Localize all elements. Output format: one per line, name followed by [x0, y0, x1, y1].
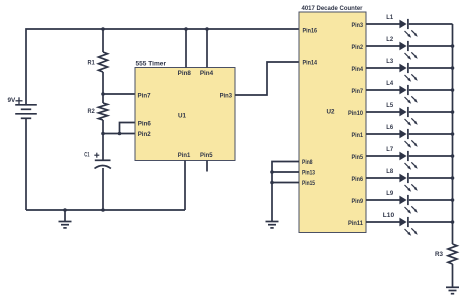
- resistor R3: [448, 244, 457, 264]
- LED L3: [366, 63, 453, 82]
- junction dot at (272,182.5): [270, 181, 274, 185]
- LED L6: [366, 129, 453, 148]
- svg-text:Pin4: Pin4: [352, 66, 364, 73]
- LED L1: [366, 19, 453, 38]
- svg-text:Pin6: Pin6: [138, 120, 152, 127]
- junction dot at (207,29): [205, 27, 209, 31]
- junction dot at (186,29): [184, 27, 188, 31]
- svg-text:9V: 9V: [8, 97, 16, 104]
- svg-text:Pin3: Pin3: [352, 22, 364, 29]
- IC U1 555 timer box: [135, 68, 235, 161]
- svg-text:Pin8: Pin8: [178, 70, 192, 77]
- svg-text:Pin2: Pin2: [138, 131, 151, 138]
- svg-text:L6: L6: [386, 124, 393, 131]
- svg-text:R3: R3: [435, 251, 443, 258]
- svg-text:Pin1: Pin1: [178, 152, 191, 159]
- wire: node to U1 Pin7: [103, 93, 135, 95]
- ground (bottom-right): [446, 287, 459, 293]
- svg-text:Pin9: Pin9: [352, 198, 364, 205]
- ground (under U2): [266, 222, 279, 228]
- svg-text:Pin7: Pin7: [138, 93, 151, 100]
- svg-text:L1: L1: [386, 14, 393, 21]
- wire: bottom ground rail: [26, 209, 185, 211]
- ground (bottom-left): [59, 222, 72, 228]
- LED L8: [366, 173, 453, 192]
- junction dot at (65,210): [63, 208, 67, 212]
- svg-text:L4: L4: [386, 80, 393, 87]
- svg-text:L9: L9: [386, 190, 393, 197]
- battery BT1 9V: [15, 105, 37, 119]
- wire: top power rail from battery to U2 Pin16: [26, 29, 299, 105]
- wire: LED cathode bus: [452, 24, 454, 287]
- svg-text:C1: C1: [84, 152, 89, 159]
- svg-text:Pin5: Pin5: [352, 154, 364, 161]
- wire: U1 Pin5 stub: [206, 161, 208, 172]
- svg-text:L8: L8: [386, 168, 393, 175]
- svg-text:Pin11: Pin11: [348, 220, 363, 227]
- svg-text:Pin7: Pin7: [352, 88, 364, 95]
- svg-text:4017 Decade Counter: 4017 Decade Counter: [302, 5, 363, 12]
- junction dots on bus: [451, 44, 455, 224]
- resistor R2: [99, 103, 108, 120]
- svg-text:L10: L10: [383, 212, 395, 219]
- LED L2: [366, 41, 453, 60]
- svg-text:Pin16: Pin16: [303, 28, 318, 35]
- svg-text:U2: U2: [327, 109, 335, 116]
- label 9V+: [8, 97, 23, 105]
- wire: R1/R2/C1 column: [102, 29, 104, 210]
- svg-text:Pin13: Pin13: [302, 170, 315, 177]
- svg-text:555 Timer: 555 Timer: [136, 61, 167, 68]
- junction dot at (272,172): [270, 170, 274, 174]
- plus sign for C1: [94, 153, 99, 158]
- junction dot at (103,29): [101, 27, 105, 31]
- LED L5: [366, 107, 453, 126]
- LED L9: [366, 195, 453, 214]
- LED L7: [366, 151, 453, 170]
- capacitor C1: [95, 160, 111, 168]
- wire: Pin6 stub: [120, 123, 136, 134]
- resistor R1: [99, 52, 108, 72]
- svg-text:Pin2: Pin2: [352, 44, 364, 51]
- svg-text:Pin4: Pin4: [200, 70, 214, 77]
- wire: node to U1 Pin2: [103, 133, 135, 135]
- svg-text:L2: L2: [386, 36, 393, 43]
- svg-text:Pin5: Pin5: [200, 152, 213, 159]
- wire: U1 Pin3 to U2 Pin14: [235, 62, 299, 95]
- LED L10: [366, 217, 453, 236]
- junction dot at (103,133.5): [101, 132, 105, 136]
- svg-text:Pin1: Pin1: [352, 132, 364, 139]
- svg-text:Pin15: Pin15: [302, 180, 315, 187]
- svg-text:Pin10: Pin10: [348, 110, 363, 117]
- junction dot node R1/R2/Pin7: [101, 92, 105, 96]
- junction dot at (119.5,133.5): [118, 132, 122, 136]
- wire: ground stub bottom-left: [64, 210, 66, 222]
- svg-text:Pin8: Pin8: [302, 159, 313, 166]
- wire: U2 Pin8/13/15 to ground: [272, 162, 299, 222]
- svg-text:Pin3: Pin3: [220, 93, 233, 100]
- svg-text:L5: L5: [386, 102, 393, 109]
- wire: rail to U1 Pin4: [206, 29, 208, 68]
- wire: battery negative down to bottom rail: [25, 118, 27, 210]
- svg-text:U1: U1: [178, 112, 186, 119]
- svg-text:L3: L3: [386, 58, 393, 65]
- svg-text:Pin14: Pin14: [303, 60, 318, 67]
- IC U2 4017 decade counter box: [299, 12, 366, 233]
- svg-text:Pin6: Pin6: [352, 176, 364, 183]
- svg-text:L7: L7: [386, 146, 393, 153]
- LED L4: [366, 85, 453, 104]
- junction dot at (103,210): [101, 208, 105, 212]
- svg-text:R2: R2: [88, 108, 96, 115]
- wire: U1 Pin1 to bottom rail: [184, 161, 186, 211]
- wire: rail to U1 Pin8: [185, 29, 187, 68]
- svg-text:R1: R1: [88, 60, 96, 67]
